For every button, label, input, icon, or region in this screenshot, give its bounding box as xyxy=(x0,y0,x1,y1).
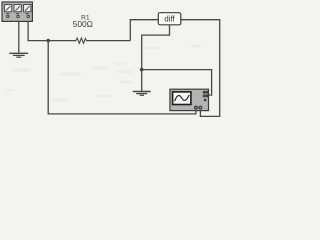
wire: node A to resistor R1 xyxy=(48,40,76,42)
signal generator knob 1 xyxy=(6,15,9,18)
resistor R1 xyxy=(76,38,86,43)
signal generator screen 1 xyxy=(4,5,11,12)
wire: node B right and down to scope right-side terminal xyxy=(142,70,212,96)
scan smudges (paper noise) xyxy=(5,45,202,102)
wire: diff bottom down, left, down to node B xyxy=(142,25,170,70)
node B junction dot xyxy=(140,68,144,72)
wire: node A drop down and bottom run to scope bottom terminal xyxy=(48,41,196,114)
ground (middle) xyxy=(133,92,151,96)
oscilloscope bottom terminal 2 xyxy=(198,106,202,110)
node A junction dot xyxy=(46,39,50,43)
oscilloscope screen with sine trace xyxy=(173,92,191,105)
wire: generator right lead down and right to node A xyxy=(28,21,48,40)
diff box U2 xyxy=(158,13,181,25)
oscilloscope bottom terminal 1 xyxy=(194,106,198,110)
signal generator knob 3 xyxy=(27,15,30,18)
paper background xyxy=(0,0,224,120)
signal generator screen 3 xyxy=(24,5,31,12)
wire: generator left lead down to ground xyxy=(18,21,20,52)
signal generator panel dashes xyxy=(6,13,29,14)
signal generator U1 body xyxy=(2,2,32,21)
oscilloscope U3 body xyxy=(170,89,209,110)
ground (left) xyxy=(9,53,28,57)
wire: node B down to ground (middle) xyxy=(141,70,143,91)
oscilloscope knobs xyxy=(203,91,209,102)
wire: diff output right, down right side, to scope bottom terminal xyxy=(181,20,220,117)
wire: riser up and right to diff box input xyxy=(130,20,158,41)
signal generator knob 2 xyxy=(16,15,19,18)
signal generator screen 2 xyxy=(14,5,21,12)
svg-text:500Ω: 500Ω xyxy=(73,19,93,29)
wire: resistor to riser corner xyxy=(86,40,130,42)
svg-text:diff: diff xyxy=(164,15,175,24)
